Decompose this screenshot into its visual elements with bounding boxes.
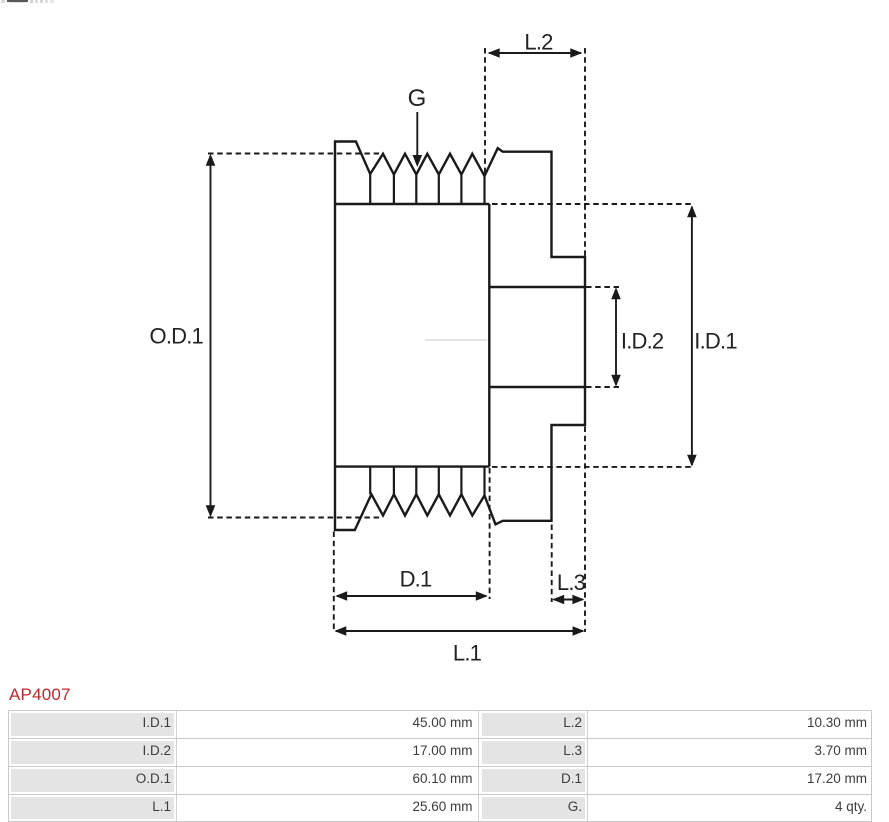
- extension line I.D.2 top (dashed): [586, 286, 619, 288]
- dimension L.1: [334, 626, 584, 665]
- extension line I.D.2 bottom (dashed): [586, 386, 619, 388]
- groove root line top: [335, 203, 489, 205]
- dimension L.2: [488, 30, 583, 58]
- groove count label G: [408, 85, 426, 167]
- extension line O.D.1 top (dashed): [208, 153, 383, 155]
- dimension I.D.1: [687, 205, 737, 466]
- truncated logo artifact at very top-left: [7, 0, 28, 2]
- groove valley stems top: [370, 174, 484, 204]
- product code: [9, 685, 71, 705]
- extension line L.1/L.3 right (dashed): [584, 427, 586, 633]
- pulley outer profile: [335, 142, 585, 531]
- extension line L.3 left (dashed): [551, 525, 553, 603]
- extension line L.1 left (dashed): [333, 532, 335, 633]
- dimension I.D.2: [611, 287, 664, 386]
- svg-text:L.2: L.2: [524, 30, 553, 55]
- dimension L.3: [552, 570, 585, 604]
- extension line L.2 right (dashed): [584, 48, 586, 257]
- svg-text:D.1: D.1: [400, 567, 432, 592]
- svg-text:L.3: L.3: [557, 570, 586, 595]
- extension line I.D.1 top (dashed): [492, 203, 695, 205]
- groove valley stems bottom: [370, 467, 484, 496]
- svg-text:O.D.1: O.D.1: [150, 324, 204, 349]
- svg-text:L.1: L.1: [453, 641, 482, 666]
- groove root line bottom: [335, 465, 489, 467]
- svg-text:I.D.2: I.D.2: [621, 329, 664, 354]
- svg-text:G: G: [408, 85, 426, 112]
- extension line D.1 right (dashed): [489, 468, 491, 599]
- dimension O.D.1: [150, 154, 216, 518]
- extension line I.D.1 bottom (dashed): [492, 466, 695, 468]
- specification table: [8, 710, 872, 822]
- extension line O.D.1 bottom (dashed): [208, 517, 381, 519]
- front face right edge: [488, 204, 490, 467]
- hub bore line bottom: [489, 386, 585, 388]
- hub bore line top: [489, 286, 585, 288]
- extension line L.2 left (dashed): [484, 48, 486, 173]
- svg-text:I.D.1: I.D.1: [694, 329, 737, 354]
- dimension D.1: [335, 567, 488, 601]
- faint centerline: [425, 339, 487, 341]
